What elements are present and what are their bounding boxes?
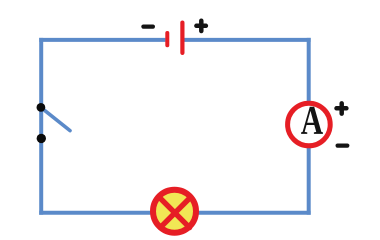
wire: right side (through ammeter) bbox=[307, 38, 311, 215]
switch S1: bottom terminal junction dot bbox=[37, 134, 46, 143]
wire: top side, right segment (battery positive plate to top-right corner) bbox=[184, 38, 311, 42]
battery B1: positive plate (long bar) bbox=[180, 23, 184, 53]
lamp L1: filament X cross bbox=[160, 198, 189, 227]
ammeter A1: body (red circle, white fill) bbox=[288, 103, 331, 146]
switch S1: open blade bbox=[41, 108, 70, 131]
lamp L1: body (yellow bulb with red ring) bbox=[153, 190, 196, 233]
wire: top side, left segment (top-left corner to battery negative plate) bbox=[39, 38, 165, 42]
battery B1: negative plate (short bar) bbox=[165, 33, 169, 45]
label: ammeter polarity plus bbox=[337, 103, 347, 113]
label: battery polarity minus bbox=[143, 25, 153, 29]
wire: bottom side (through lamp) bbox=[39, 211, 311, 215]
label: ammeter polarity minus bbox=[338, 144, 348, 148]
switch S1: top terminal junction dot bbox=[37, 103, 46, 112]
wire: left side (through switch S1) bbox=[39, 38, 43, 215]
label: battery polarity plus bbox=[196, 21, 206, 31]
ammeter A1: letter A bbox=[301, 107, 323, 134]
